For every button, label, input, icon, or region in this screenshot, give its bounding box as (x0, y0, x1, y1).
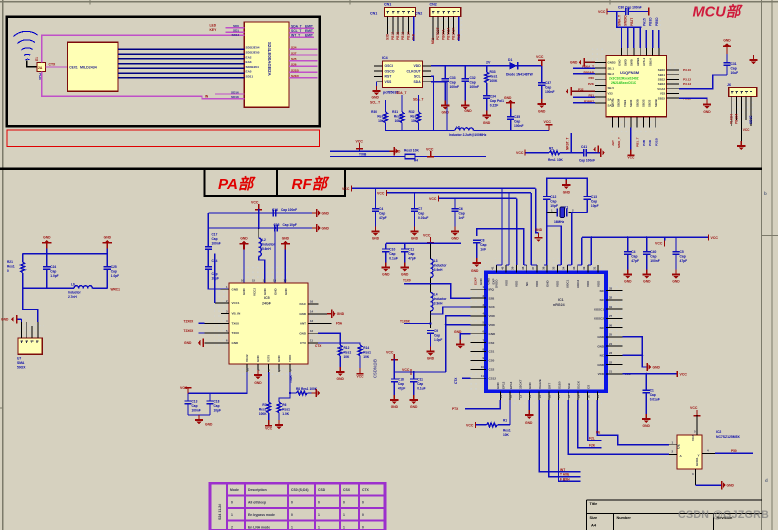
gnd right of PA (327, 310, 336, 318)
PA left pins (205, 289, 230, 343)
svg-text:P31B: P31B (654, 137, 658, 146)
svg-text:GND: GND (1, 318, 9, 322)
svg-text:18: 18 (567, 394, 571, 398)
wire CTX antenna to U8 (46, 66, 68, 68)
svg-text:SB30: SB30 (629, 99, 633, 107)
svg-text:CN1: CN1 (370, 12, 377, 16)
SPI bus wires U8 to U9 (118, 49, 244, 78)
svg-text:F2L: F2L (589, 436, 595, 440)
svg-text:R31: R31 (392, 110, 398, 114)
svg-text:T1XD4: T1XD4 (730, 114, 734, 124)
svg-text:EMIT: EMIT (305, 29, 313, 33)
red highlight box (7, 130, 319, 147)
svg-text:NRST_T: NRST_T (566, 138, 570, 150)
svg-text:Cap: Cap (650, 393, 656, 397)
svg-text:GND: GND (299, 331, 307, 335)
CN2 pin wires (433, 17, 454, 41)
svg-text:31: 31 (592, 266, 596, 270)
svg-text:CS: CS (586, 385, 590, 389)
svg-text:SDO2E04: SDO2E04 (246, 46, 260, 50)
svg-text:VSS: VSS (385, 80, 393, 84)
VCC at R4 right (427, 151, 434, 157)
svg-text:GND: GND (382, 273, 390, 277)
svg-text:SWD_T: SWD_T (617, 137, 621, 148)
svg-text:12: 12 (310, 329, 314, 333)
stair wire pin2 (431, 284, 471, 298)
U9 bus pin labels (246, 46, 260, 79)
svg-text:16: 16 (241, 279, 245, 283)
svg-text:GND: GND (454, 330, 462, 334)
svg-text:33: 33 (609, 286, 613, 290)
svg-text:En LNA mode: En LNA mode (248, 526, 270, 530)
pins 6,8 jumper to gnd (622, 337, 646, 367)
svg-text:IC4: IC4 (382, 56, 388, 60)
svg-text:Cap: Cap (212, 237, 218, 241)
thick section divider line (0, 167, 762, 170)
svg-text:100nF: 100nF (450, 85, 460, 89)
svg-text:Mode: Mode (230, 488, 239, 492)
svg-text:GND: GND (483, 121, 491, 125)
svg-text:GND: GND (563, 191, 571, 195)
svg-text:E2XP: E2XP (473, 277, 477, 285)
svg-text:0: 0 (362, 513, 364, 517)
svg-text:WRC1: WRC1 (111, 288, 121, 292)
ground right at C41 (600, 149, 602, 157)
svg-text:23: 23 (609, 351, 613, 355)
svg-text:GND: GND (284, 288, 288, 296)
svg-text:GND: GND (489, 332, 497, 336)
svg-text:S26: S26 (291, 63, 297, 67)
svg-text:100nF: 100nF (470, 85, 480, 89)
svg-text:SD4E204: SD4E204 (246, 65, 260, 69)
svg-text:GND: GND (451, 237, 459, 241)
PA right pin numbers (310, 299, 314, 342)
PA bottom pin numbers (246, 367, 293, 371)
svg-text:AVS.1: AVS.1 (642, 57, 646, 66)
svg-text:S1B: S1B (567, 382, 571, 389)
svg-text:PA部: PA部 (218, 175, 256, 193)
svg-text:CS0 (S;D4): CS0 (S;D4) (291, 488, 309, 492)
svg-text:VAA2E: VAA2E (538, 379, 542, 389)
svg-text:VCC: VCC (544, 120, 552, 124)
C24 (46, 254, 48, 266)
svg-text:Cap: Cap (591, 200, 597, 204)
svg-text:L2: L2 (262, 238, 266, 242)
svg-text:0: 0 (7, 269, 9, 273)
svg-text:SD16: SD16 (231, 90, 239, 94)
svg-text:F2K: F2K (589, 444, 596, 448)
svg-text:1: 1 (318, 513, 320, 517)
pullup bottom rail to VCC (386, 123, 455, 131)
svg-text:GND: GND (411, 237, 419, 241)
svg-text:LED: LED (210, 23, 217, 27)
svg-text:Cap: Cap (631, 255, 637, 259)
mcu bottom pin labels (611, 137, 640, 148)
svg-text:CS1: CS1 (489, 350, 495, 354)
svg-text:VCC1: VCC1 (232, 301, 240, 305)
svg-text:R2: R2 (549, 147, 553, 151)
svg-text:Cap: Cap (214, 404, 220, 408)
svg-text:VCC: VCC (426, 148, 434, 152)
svg-text:C37: C37 (545, 81, 551, 85)
svg-text:10K: 10K (503, 433, 510, 437)
svg-text:SB15: SB15 (658, 96, 666, 100)
mcu chip IC3 (606, 55, 667, 116)
svg-text:S2B: S2B (489, 296, 496, 300)
svg-text:C40: C40 (650, 250, 656, 254)
svg-text:Cap: Cap (418, 212, 424, 216)
svg-text:SDO2E05: SDO2E05 (246, 51, 260, 55)
svg-text:C31: C31 (731, 62, 737, 66)
gnd right row2 (312, 224, 321, 232)
svg-text:SD11: SD11 (246, 74, 254, 78)
svg-text:12: 12 (509, 394, 513, 398)
svg-text:C1: C1 (650, 389, 654, 393)
crystal loop wires (547, 178, 588, 196)
top rail (23, 253, 108, 255)
svg-text:IRQ: IRQ (489, 287, 495, 291)
svg-text:2.7nH: 2.7nH (68, 295, 77, 299)
svg-text:C13: C13 (192, 400, 198, 404)
svg-text:NC7SZ125M5X: NC7SZ125M5X (716, 435, 740, 439)
R21 (22, 254, 24, 262)
svg-text:19: 19 (577, 394, 581, 398)
svg-text:SD1: SD1 (233, 29, 239, 33)
svg-text:SD12: SD12 (232, 33, 240, 37)
svg-text:GND: GND (727, 484, 735, 488)
svg-text:VSS: VSS (504, 280, 508, 286)
svg-text:d: d (765, 478, 768, 483)
capacitor C32 (464, 66, 466, 78)
svg-text:GND: GND (525, 421, 533, 425)
svg-text:SB3N: SB3N (611, 99, 615, 107)
PTX wire (465, 400, 501, 409)
svg-text:R14: R14 (363, 346, 369, 350)
svg-text:U1QFN3M: U1QFN3M (620, 70, 640, 75)
svg-text:C4: C4 (379, 207, 383, 211)
svg-text:CN2: CN2 (415, 12, 422, 16)
svg-text:100nF: 100nF (192, 409, 201, 413)
wire stair vertical 2 (508, 192, 510, 194)
svg-text:C24: C24 (50, 265, 56, 269)
svg-text:L4: L4 (434, 293, 438, 297)
svg-text:PB17: PB17 (391, 32, 395, 40)
R7 divider (268, 372, 270, 402)
svg-text:OSCI: OSCI (385, 64, 393, 68)
svg-text:Cap: Cap (550, 200, 556, 204)
svg-text:VCC: VCC (680, 373, 688, 377)
IC2 right pin (702, 452, 715, 454)
svg-text:1: 1 (343, 513, 345, 517)
U9 right I2C wires (289, 28, 314, 37)
svg-text:T AXE: T AXE (560, 473, 569, 477)
svg-text:0: 0 (318, 501, 320, 505)
svg-text:L3: L3 (434, 259, 438, 263)
svg-text:GND: GND (337, 377, 345, 381)
svg-text:MILD2434: MILD2434 (80, 66, 97, 70)
svg-text:2A: 2A (38, 66, 43, 70)
PA right pins (308, 304, 331, 343)
svg-text:Inductor: Inductor (68, 290, 82, 294)
svg-text:GND: GND (545, 280, 549, 288)
PA top inner labels (242, 288, 288, 297)
svg-text:41: 41 (491, 266, 495, 270)
svg-text:Res1: Res1 (394, 115, 402, 119)
svg-text:T1X0: T1X0 (403, 279, 411, 283)
svg-text:13: 13 (518, 394, 522, 398)
svg-text:Res1: Res1 (7, 265, 15, 269)
svg-text:GND1: GND1 (695, 457, 699, 466)
PA bottom pin2 gnd (254, 370, 262, 379)
svg-text:CSDN@B: CSDN@B (373, 359, 378, 378)
svg-text:GND: GND (723, 39, 731, 43)
capacitor C33 (444, 66, 446, 78)
svg-text:S25: S25 (291, 57, 297, 61)
svg-text:Res1: Res1 (344, 351, 352, 355)
wire row2 down to PA pin (274, 228, 276, 283)
svg-text:C12: C12 (550, 195, 556, 199)
svg-text:CSDN @GJZGRB: CSDN @GJZGRB (678, 509, 769, 521)
resistor R4 rect style (405, 154, 415, 159)
svg-text:C33: C33 (450, 76, 456, 80)
svg-text:C32: C32 (470, 76, 476, 80)
svg-text:C10: C10 (389, 248, 395, 252)
svg-text:GND: GND (464, 109, 472, 113)
ground right on row1 (390, 147, 399, 155)
svg-text:VB_IN: VB_IN (232, 312, 241, 316)
svg-text:SB11: SB11 (658, 73, 665, 77)
svg-text:GND: GND (242, 288, 246, 296)
table row 0 (231, 501, 364, 505)
svg-text:C9: C9 (434, 329, 438, 333)
svg-text:PB15: PB15 (396, 32, 400, 40)
svg-text:SWB: SWB (630, 59, 634, 66)
svg-text:SB3B: SB3B (654, 99, 658, 107)
svg-text:Cap: Cap (389, 252, 395, 256)
svg-text:DRT: DRT (548, 383, 552, 389)
rtc left pins (374, 66, 383, 82)
svg-text:GND: GND (597, 335, 605, 339)
svg-text:10pF: 10pF (550, 204, 558, 208)
bottom signal wires to net stubs (539, 400, 580, 472)
svg-text:VDD: VDD (535, 280, 539, 287)
svg-text:GND: GND (372, 96, 380, 100)
svg-text:Cap: Cap (450, 81, 456, 85)
capacitor C14a at VCC cluster (393, 372, 395, 378)
svg-text:GND: GND (104, 236, 112, 240)
svg-text:35: 35 (552, 266, 556, 270)
PA VCC1 wire up (214, 254, 216, 303)
svg-text:PTX: PTX (452, 407, 459, 411)
svg-text:VCC: VCC (536, 55, 544, 59)
svg-text:VCC: VCC (377, 192, 385, 196)
svg-text:C41: C41 (581, 145, 587, 149)
svg-text:0: 0 (343, 501, 345, 505)
svg-text:GND: GND (391, 405, 399, 409)
svg-text:GND: GND (442, 111, 450, 115)
svg-text:0: 0 (291, 513, 293, 517)
svg-text:D1: D1 (508, 58, 512, 62)
svg-text:3.9nH: 3.9nH (434, 268, 443, 272)
svg-text:1: 1 (231, 513, 233, 517)
svg-text:PB1B4: PB1B4 (735, 113, 739, 124)
svg-text:5.6nH: 5.6nH (262, 247, 271, 251)
RF out rail (386, 242, 461, 244)
RF right pin stubs (606, 291, 622, 374)
gnd right row1 (312, 209, 321, 217)
svg-text:Cap 100nF: Cap 100nF (579, 159, 595, 163)
svg-text:CTX: CTX (315, 344, 322, 348)
svg-text:10: 10 (246, 367, 250, 371)
svg-text:PB5D: PB5D (655, 17, 659, 26)
svg-text:Inductor 2.2uH@100MHz: Inductor 2.2uH@100MHz (449, 133, 487, 137)
R12 pulldown (318, 333, 340, 345)
svg-text:Cap: Cap (408, 252, 414, 256)
svg-text:GND: GND (617, 60, 621, 66)
capacitor C34 polarized (486, 83, 488, 95)
svg-text:C35: C35 (514, 115, 520, 119)
svg-text:PB1K: PB1K (406, 31, 410, 40)
svg-text:17: 17 (557, 394, 561, 398)
svg-text:R30: R30 (371, 110, 377, 114)
svg-text:11: 11 (499, 395, 503, 398)
svg-text:SB1H: SB1H (648, 58, 652, 66)
svg-text:S3D: S3D (386, 33, 390, 40)
resistor R32 (418, 95, 420, 112)
svg-text:100nF: 100nF (545, 90, 555, 94)
svg-text:47pF: 47pF (680, 259, 688, 263)
svg-text:GND: GND (232, 287, 240, 291)
ground at crystal (565, 178, 567, 180)
capacitor C3 right (584, 196, 591, 200)
svg-text:OE: OE (677, 443, 681, 449)
svg-text:GND: GND (232, 341, 240, 345)
svg-text:P3.13: P3.13 (683, 82, 691, 86)
mcu top pin wires (622, 27, 659, 48)
wire row 2 (330, 156, 486, 158)
svg-text:GND: GND (487, 277, 491, 285)
svg-text:MCU部: MCU部 (693, 4, 743, 21)
svg-text:Cap: Cap (417, 382, 423, 386)
table row 1 (231, 513, 364, 517)
RF section label box (277, 169, 345, 196)
svg-text:47pF: 47pF (379, 216, 387, 220)
svg-text:JHT: JHT (611, 140, 615, 146)
svg-text:SCL_T: SCL_T (370, 101, 380, 105)
svg-text:V33: V33 (660, 92, 666, 96)
svg-text:31: 31 (609, 305, 613, 309)
RF top pin numbers (491, 266, 597, 270)
svg-text:C8: C8 (480, 239, 484, 243)
svg-text:VDD: VDD (598, 372, 605, 376)
svg-text:S1B0: S1B0 (557, 381, 561, 389)
svg-text:Cap 100nF: Cap 100nF (625, 6, 642, 10)
svg-text:SD0: SD0 (233, 24, 239, 28)
bottom rail with L6 (23, 287, 74, 289)
svg-text:P2K: P2K (588, 82, 595, 86)
RF right pin numbers (609, 286, 613, 373)
svg-text:VCC: VCC (386, 351, 394, 355)
svg-text:M11: M11 (431, 38, 435, 44)
wire U9 bottom-left row2 (215, 93, 244, 95)
svg-text:Cap: Cap (731, 67, 737, 71)
svg-text:16: 16 (310, 299, 314, 303)
svg-text:SDA_T: SDA_T (291, 25, 302, 29)
reset net vertical wire (570, 133, 572, 153)
svg-text:V3B1: V3B1 (623, 99, 627, 107)
svg-text:E1: E1 (35, 57, 39, 61)
gnd left of PA (203, 339, 205, 347)
svg-text:INT_T: INT_T (291, 34, 300, 38)
svg-text:Cap: Cap (650, 255, 656, 259)
svg-text:C4: C4 (631, 250, 635, 254)
U9 right port wires (289, 49, 318, 78)
svg-text:AWB1: AWB1 (636, 57, 640, 66)
svg-text:CS2: CS2 (489, 368, 495, 372)
svg-text:C34: C34 (490, 95, 496, 99)
svg-text:1: 1 (318, 526, 320, 530)
table row 2 (231, 526, 364, 530)
capacitor C40 (646, 237, 648, 251)
svg-text:VDD: VDD (556, 280, 560, 287)
svg-text:EMIT: EMIT (305, 25, 313, 29)
capacitor C12a (385, 243, 387, 248)
mcu right inner labels (657, 68, 665, 100)
svg-text:Title: Title (590, 502, 598, 506)
cap row 2 wire (208, 227, 312, 229)
svg-text:100nF: 100nF (650, 259, 660, 263)
svg-text:GND: GND (471, 269, 479, 273)
svg-text:32: 32 (582, 266, 586, 270)
resistor R33 (486, 66, 488, 72)
svg-text:GND: GND (299, 312, 307, 316)
RF top pin stubs (496, 265, 598, 272)
PA bottom VCC wire left (188, 372, 247, 393)
svg-text:VDD: VDD (515, 280, 519, 287)
svg-text:nRG24: nRG24 (553, 303, 565, 307)
svg-text:F5A: F5A (336, 322, 343, 326)
svg-text:26: 26 (609, 323, 613, 327)
svg-text:GND3: GND3 (608, 61, 616, 65)
svg-text:PB1_T: PB1_T (636, 137, 640, 147)
svg-text:Number: Number (617, 516, 632, 520)
frame zone tick top 1 (90, 0, 91, 5)
svg-text:C30: C30 (618, 6, 624, 10)
capacitor C11b at VCC cluster (413, 372, 415, 378)
svg-text:Inductor: Inductor (434, 297, 448, 301)
PA bottom pins (247, 364, 290, 372)
svg-text:Diode 1N4148TW: Diode 1N4148TW (506, 73, 534, 77)
PA left pin numbers (226, 285, 228, 343)
VCC arrow right end (708, 234, 709, 240)
svg-text:C18: C18 (214, 400, 220, 404)
svg-text:VCC: VCC (356, 140, 364, 144)
magenta loop wire bottom (42, 71, 245, 99)
rtc right pins (423, 66, 432, 82)
svg-text:GND: GND (256, 355, 260, 363)
svg-text:SMA: SMA (17, 361, 25, 365)
capacitor C1 (645, 374, 647, 390)
svg-text:S1CK: S1CK (577, 380, 581, 389)
svg-text:R7: R7 (262, 403, 266, 407)
SMA connector U7 (18, 338, 42, 354)
svg-text:EA2: EA2 (246, 55, 252, 59)
svg-text:IC2: IC2 (716, 430, 721, 434)
svg-text:VCC: VCC (357, 375, 365, 379)
wire stair vertical 1 (501, 187, 503, 189)
inductor L3 (430, 243, 432, 259)
svg-text:GND: GND (337, 312, 345, 316)
